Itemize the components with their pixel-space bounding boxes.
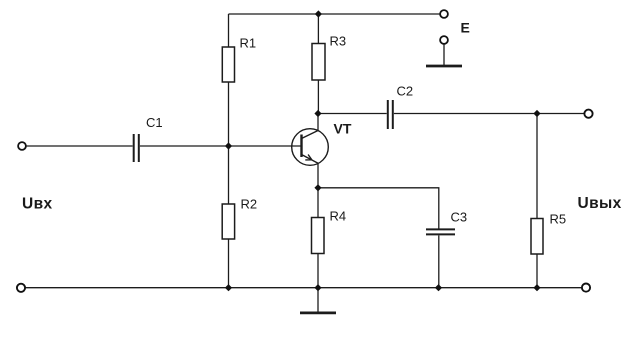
node bottom C3	[435, 284, 442, 291]
capacitor C1	[134, 134, 139, 162]
svg-text:R4: R4	[330, 209, 347, 224]
terminal E lower	[440, 36, 448, 44]
node base	[225, 142, 232, 149]
wire input	[26, 145, 133, 147]
wire C1 to base	[140, 145, 302, 147]
wire R1 top	[228, 14, 230, 47]
capacitor C2	[388, 100, 393, 129]
svg-text:C1: C1	[146, 115, 163, 130]
svg-text:VT: VT	[334, 121, 352, 137]
svg-text:E: E	[461, 20, 470, 36]
svg-text:R5: R5	[550, 212, 567, 227]
svg-text:C3: C3	[451, 210, 468, 225]
wire bottom rail	[26, 287, 582, 289]
terminal bottom right	[582, 284, 590, 292]
node bottom R4	[314, 284, 321, 291]
wire R4 top	[317, 188, 319, 218]
wire R4 bottom	[317, 254, 319, 288]
resistor R2	[222, 204, 234, 239]
wire R1 bottom	[228, 82, 230, 146]
ground	[300, 311, 336, 314]
node emitter	[314, 184, 321, 191]
terminal output top	[584, 110, 592, 118]
node bottom R2	[225, 284, 232, 291]
wire R5 top	[536, 114, 538, 219]
svg-text:C2: C2	[397, 84, 414, 99]
wire collector to C2	[318, 113, 387, 115]
svg-text:Uвх: Uвх	[22, 196, 53, 213]
transistor VT	[292, 129, 329, 166]
terminal E top	[440, 10, 448, 18]
svg-text:R3: R3	[330, 34, 347, 49]
wire R3 bottom	[317, 80, 319, 114]
power E stem	[443, 45, 445, 66]
resistor R3	[312, 44, 325, 81]
wire emitter	[317, 164, 319, 188]
wire R3 top	[317, 14, 319, 44]
resistor R5	[531, 219, 543, 255]
wire R5 bottom	[536, 254, 538, 288]
svg-text:Uвых: Uвых	[578, 195, 622, 212]
wire emitter to C3 corner	[318, 188, 439, 229]
wire C3 bottom	[438, 236, 440, 288]
wire top rail	[229, 13, 441, 15]
svg-text:R1: R1	[240, 36, 257, 51]
terminal input	[18, 142, 26, 150]
svg-text:R2: R2	[241, 197, 258, 212]
wire collector	[317, 114, 319, 131]
resistor R1	[222, 47, 234, 82]
wire C2 to output terminal	[394, 113, 584, 115]
node collector	[314, 110, 321, 117]
terminal bottom left	[17, 284, 25, 292]
wire R2 top	[228, 146, 230, 204]
power E bar	[426, 65, 462, 68]
node R5 top	[533, 110, 540, 117]
node top junction	[315, 10, 322, 17]
node bottom R5	[533, 284, 540, 291]
resistor R4	[312, 218, 325, 254]
capacitor C3	[426, 229, 455, 234]
ground stem	[317, 288, 319, 313]
wire R2 bottom	[228, 239, 230, 288]
